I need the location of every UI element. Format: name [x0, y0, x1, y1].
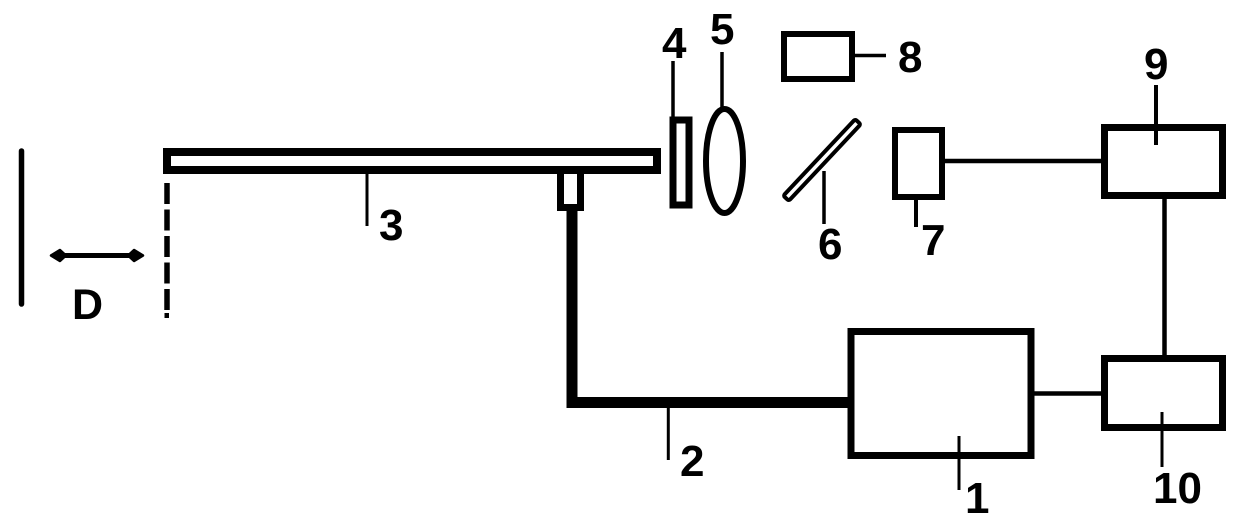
svg-text:2: 2: [680, 437, 704, 486]
svg-text:D: D: [72, 281, 103, 329]
svg-text:1: 1: [965, 474, 989, 523]
svg-text:7: 7: [921, 216, 945, 265]
svg-text:5: 5: [710, 5, 734, 54]
svg-text:4: 4: [662, 19, 687, 68]
svg-text:8: 8: [898, 33, 922, 82]
svg-text:3: 3: [379, 201, 403, 250]
svg-text:6: 6: [818, 220, 842, 269]
svg-text:10: 10: [1153, 464, 1202, 513]
svg-text:9: 9: [1144, 40, 1168, 89]
